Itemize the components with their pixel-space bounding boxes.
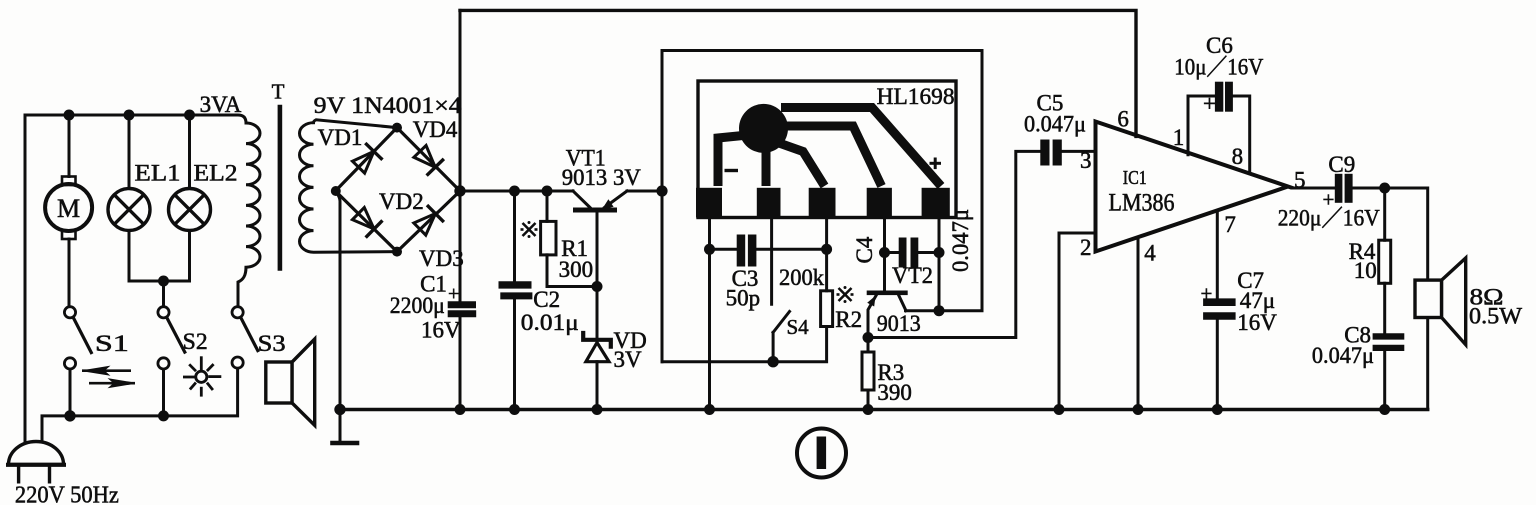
svg-text:+: + xyxy=(1201,282,1213,306)
svg-text:300: 300 xyxy=(559,257,594,282)
svg-text:0.047μ: 0.047μ xyxy=(1312,343,1374,368)
svg-text:S2: S2 xyxy=(183,329,208,354)
svg-text:10: 10 xyxy=(1354,258,1377,283)
svg-text:2: 2 xyxy=(1080,235,1092,260)
svg-text:16V: 16V xyxy=(421,318,461,343)
svg-text:4: 4 xyxy=(1144,241,1156,266)
svg-text:C9: C9 xyxy=(1328,152,1355,177)
svg-text:0.047μ: 0.047μ xyxy=(948,209,973,272)
svg-text:VD1: VD1 xyxy=(318,125,363,150)
svg-text:1: 1 xyxy=(1173,125,1185,150)
svg-text:200k: 200k xyxy=(779,265,824,290)
svg-text:+: + xyxy=(448,283,459,305)
svg-text:VD3: VD3 xyxy=(419,246,464,271)
svg-text:IC1: IC1 xyxy=(1123,167,1147,189)
svg-text:HL1698: HL1698 xyxy=(877,84,955,109)
svg-text:EL2: EL2 xyxy=(194,161,238,186)
svg-text:9V 1N4001×4: 9V 1N4001×4 xyxy=(314,93,463,118)
svg-text:16V: 16V xyxy=(1237,310,1277,335)
svg-text:3VA: 3VA xyxy=(200,92,242,117)
svg-text:0.01μ: 0.01μ xyxy=(521,310,579,335)
svg-text:EL1: EL1 xyxy=(135,161,181,186)
svg-text:VD2: VD2 xyxy=(379,189,424,214)
svg-text:LM386: LM386 xyxy=(1109,190,1175,217)
svg-text:+: + xyxy=(1203,91,1216,116)
svg-text:S4: S4 xyxy=(787,315,810,339)
svg-text:VT2: VT2 xyxy=(892,263,933,288)
svg-text:0.5W: 0.5W xyxy=(1469,304,1522,329)
svg-text:3V: 3V xyxy=(614,347,643,372)
svg-text:220μ／16V: 220μ／16V xyxy=(1278,206,1380,231)
svg-text:5: 5 xyxy=(1294,167,1306,192)
svg-text:VD4: VD4 xyxy=(413,117,458,142)
svg-text:2200μ: 2200μ xyxy=(390,293,445,318)
svg-text:S3: S3 xyxy=(258,331,286,356)
svg-text:C4: C4 xyxy=(852,236,877,263)
svg-text:220V 50Hz: 220V 50Hz xyxy=(15,483,119,505)
svg-text:9013: 9013 xyxy=(877,311,921,336)
svg-text:6: 6 xyxy=(1117,107,1129,132)
svg-text:3: 3 xyxy=(1080,148,1092,173)
svg-text:390: 390 xyxy=(877,380,912,405)
svg-text:T: T xyxy=(272,79,285,103)
svg-text:S1: S1 xyxy=(95,331,129,356)
svg-text:0.047μ: 0.047μ xyxy=(1024,112,1086,137)
svg-text:R2: R2 xyxy=(835,307,862,332)
svg-text:M: M xyxy=(57,194,80,223)
svg-text:50p: 50p xyxy=(726,286,761,311)
svg-text:7: 7 xyxy=(1224,212,1236,237)
svg-text:C2: C2 xyxy=(533,287,560,312)
svg-text:10μ／16V: 10μ／16V xyxy=(1174,55,1263,80)
svg-text:9013 3V: 9013 3V xyxy=(562,165,641,190)
svg-text:8: 8 xyxy=(1232,144,1244,169)
